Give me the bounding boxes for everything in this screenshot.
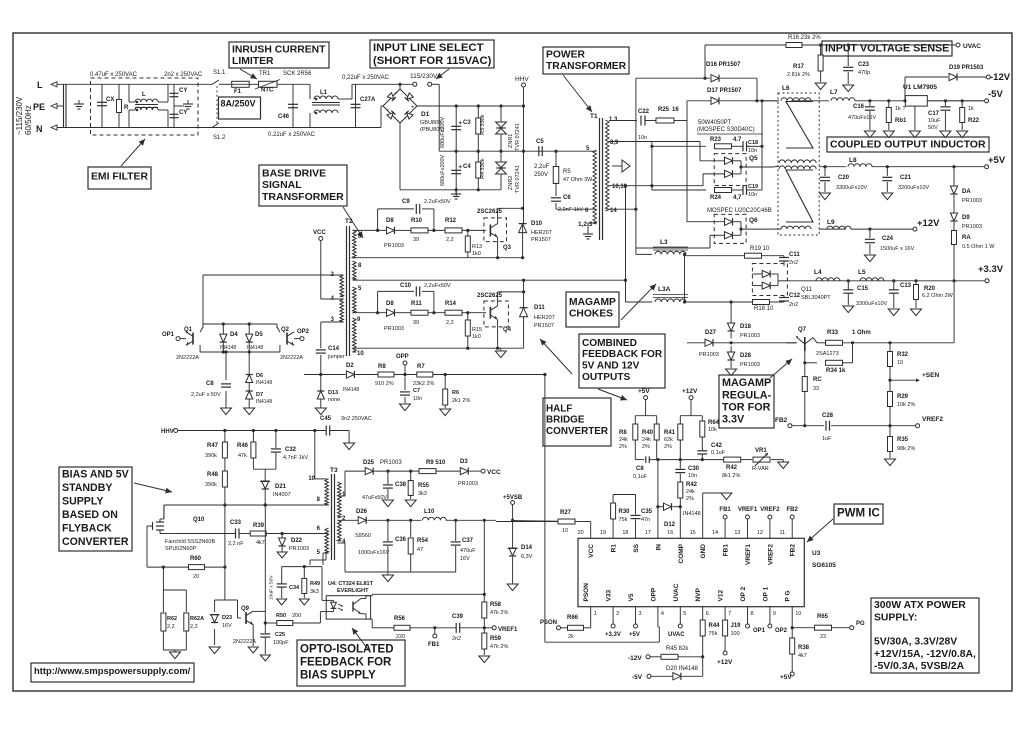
wire C3 top rail [417, 105, 524, 107]
svg-text:C38: C38 [395, 482, 407, 488]
svg-text:10n: 10n [748, 148, 757, 154]
wire Q3 emitter down [497, 237, 499, 258]
wire R23 left [652, 145, 706, 147]
svg-text:220: 220 [396, 634, 405, 640]
wire input cap line1 [63, 84, 65, 128]
junction sense D16 [703, 77, 706, 80]
svg-text:CX: CX [106, 97, 114, 103]
svg-text:3300uFx10V: 3300uFx10V [856, 301, 888, 307]
diode D27 [705, 339, 713, 346]
svg-text:C8: C8 [206, 381, 214, 387]
wire select right [432, 83, 440, 85]
wire Q10 gate row [175, 533, 236, 535]
svg-text:R22: R22 [968, 118, 980, 124]
transistor Q1 2N2222A [186, 332, 193, 346]
svg-text:R24: R24 [710, 195, 722, 201]
IC pin 16 COMP [679, 528, 681, 538]
svg-text:-5V: -5V [632, 674, 643, 681]
svg-text:0,22uF x 250VAC: 0,22uF x 250VAC [342, 75, 390, 81]
svg-text:R20: R20 [924, 286, 936, 292]
resistor R13 [465, 236, 470, 252]
svg-text:GND: GND [700, 544, 707, 559]
svg-text:TRANSFORMER: TRANSFORMER [546, 61, 627, 72]
svg-text:N: N [36, 124, 43, 134]
capacitor C23 [847, 45, 849, 66]
resistor R27 [558, 519, 575, 524]
svg-text:R62: R62 [167, 616, 177, 622]
svg-text:T2: T2 [345, 218, 353, 225]
wire VCC stem [590, 522, 592, 529]
resistor R59 branch [483, 628, 485, 633]
svg-text:IN4148: IN4148 [256, 399, 272, 405]
svg-text:98k 2%: 98k 2% [897, 446, 915, 452]
wire +12V rail [851, 228, 913, 230]
svg-text:FB1: FB1 [723, 544, 730, 557]
svg-text:2: 2 [616, 611, 619, 617]
optocoupler U4 body [326, 596, 370, 619]
svg-text:R60: R60 [190, 556, 202, 562]
winding zigzag lower [786, 170, 813, 222]
svg-text:D10: D10 [531, 221, 543, 227]
wire Q9 emitter gnd [252, 625, 254, 646]
resistor R39 [250, 531, 266, 536]
wire vertical 652 [651, 142, 653, 191]
svg-text:6,3V: 6,3V [521, 554, 533, 560]
IC pin 2 V33 [612, 607, 614, 618]
resistor R22 branch [961, 101, 963, 107]
wire +12V fb stem [690, 400, 692, 416]
svg-text:R47: R47 [207, 443, 219, 449]
IC pin 6 NVP [702, 607, 704, 618]
capacitor C19 [732, 189, 744, 191]
terminal -5V pwm [647, 674, 651, 678]
svg-text:1000uFx16V: 1000uFx16V [358, 550, 390, 556]
diode D22 branch [281, 534, 283, 539]
svg-text:75k: 75k [709, 631, 718, 637]
wire D4 D5 legs [222, 324, 224, 334]
resistor R25 [656, 118, 674, 123]
svg-text:250V: 250V [534, 172, 548, 178]
wire VCC to T2 pin4 [320, 241, 322, 300]
svg-text:BIAS AND 5V: BIAS AND 5V [62, 469, 129, 481]
wire sense drop [704, 45, 706, 78]
label input line select [370, 40, 494, 68]
resistor R60 [189, 565, 205, 570]
capacitor C30 branch [679, 460, 681, 469]
svg-text:OP 2: OP 2 [740, 586, 747, 601]
wire T2 pin6 row [353, 229, 387, 231]
resistor R15 [465, 320, 470, 336]
capacitor C38 branch [387, 471, 389, 484]
svg-text:R56: R56 [394, 616, 406, 622]
wire Q9 base [238, 617, 242, 619]
junction row2 HHV [521, 256, 524, 259]
ground C25 [260, 655, 270, 661]
junction mid2 [477, 150, 480, 153]
svg-text:50W4050PT: 50W4050PT [698, 120, 732, 126]
svg-text:10n: 10n [638, 135, 647, 141]
label emi filter [88, 167, 151, 189]
junction VREF1 row [483, 626, 486, 629]
wire Q10 source down [146, 536, 148, 567]
capacitor C4 [451, 169, 461, 171]
svg-text:FB2: FB2 [787, 507, 799, 513]
wire OPP row left [304, 374, 346, 376]
svg-text:10: 10 [308, 476, 315, 482]
wire VREF1 row [386, 627, 394, 629]
svg-text:T3: T3 [330, 467, 338, 474]
resistor R42b branch [679, 479, 681, 482]
svg-text:2n2: 2n2 [452, 636, 461, 642]
svg-text:10k 2%: 10k 2% [897, 402, 915, 408]
junction R46 top [252, 429, 255, 432]
wire -12V rail left [905, 76, 948, 78]
svg-text:SUPPLY:: SUPPLY: [874, 612, 917, 623]
svg-text:PR1003: PR1003 [740, 362, 760, 368]
svg-text:2n2: 2n2 [789, 302, 798, 308]
capacitor C15 [847, 281, 849, 290]
svg-text:R41: R41 [664, 430, 676, 436]
IC pin 18 SS [635, 528, 637, 538]
junction D16 D17 [755, 99, 758, 102]
arrow magamp regulator [770, 359, 792, 378]
diode Q5b [725, 170, 733, 177]
svg-text:0,1uF: 0,1uF [711, 450, 726, 456]
svg-text:R64: R64 [708, 420, 720, 426]
IC pin 4 OPP [657, 607, 659, 618]
svg-text:-5V: -5V [988, 89, 1003, 100]
wire HHV down [523, 87, 525, 106]
junction C37 [454, 519, 457, 522]
wire PG pin10 [791, 618, 793, 628]
terminal -5V [985, 99, 989, 103]
wire OPP pin4 [657, 618, 659, 627]
svg-text:IN: IN [655, 544, 662, 551]
ground C7 [400, 404, 411, 411]
svg-text:300W ATX POWER: 300W ATX POWER [874, 600, 966, 611]
wire R12 to Q3 [462, 229, 486, 231]
wire Q7 emitter row [813, 338, 817, 343]
wire input cap line2 [65, 84, 67, 128]
resistor R38 branch [791, 628, 793, 638]
svg-text:Q9: Q9 [241, 606, 250, 612]
capacitor C9 fb [645, 456, 647, 462]
svg-text:4,7nF 1kV: 4,7nF 1kV [283, 455, 308, 461]
wire R11 to R14 [428, 312, 445, 314]
wire D17 rail left [687, 100, 711, 102]
junction C17 [944, 99, 947, 102]
svg-text:3n2 250VAC: 3n2 250VAC [341, 416, 372, 422]
wire PSON to R66 [561, 627, 568, 629]
junction D5 bottom [248, 350, 251, 353]
wire T2 pin3 down [321, 321, 344, 323]
terminal +12V fb [689, 396, 693, 400]
svg-text:10uF x 50V: 10uF x 50V [269, 575, 275, 600]
svg-text:2%: 2% [686, 496, 694, 502]
svg-text:D7: D7 [256, 392, 263, 398]
svg-text:8,9: 8,9 [610, 140, 619, 146]
diode D2 [346, 371, 354, 378]
wire D11 vertical [523, 280, 525, 307]
wire to terminal [352, 83, 414, 85]
wire pin8 to Q10 drain [163, 505, 165, 519]
svg-text:R12: R12 [445, 218, 457, 224]
terminal FB2 top [791, 519, 793, 528]
terminal +5V fb [644, 396, 648, 400]
junction midpoint D11 [522, 279, 525, 282]
svg-text:2SA1273: 2SA1273 [816, 351, 839, 357]
svg-text:R19 10: R19 10 [750, 246, 770, 252]
diode D26 [358, 517, 366, 524]
svg-text:L1: L1 [320, 90, 328, 96]
label coupled output inductor [827, 137, 989, 152]
wire R19 to C11 [762, 255, 785, 257]
svg-text:C45: C45 [320, 416, 332, 422]
svg-text:L9: L9 [827, 219, 835, 226]
svg-text:PG: PG [856, 621, 865, 627]
svg-text:R38: R38 [798, 645, 810, 651]
label half bridge converter [543, 398, 611, 446]
wire D3 to VCC [469, 470, 481, 472]
junction OPP [403, 373, 406, 376]
svg-text:C14: C14 [328, 346, 340, 352]
terminal +5V [985, 165, 989, 169]
ground Rb1 [883, 131, 894, 138]
capacitor C45 [325, 426, 327, 436]
svg-text:24k: 24k [642, 437, 651, 443]
transformer T3 core [331, 474, 333, 560]
junction R6 [444, 373, 447, 376]
junction R20 [914, 279, 917, 282]
ground C16 [864, 131, 875, 138]
svg-text:PR1003: PR1003 [458, 481, 478, 487]
resistor R55 branch [410, 471, 412, 480]
terminal VCC T2 [319, 237, 323, 241]
junction SEN [888, 379, 891, 382]
svg-text:0,1uF: 0,1uF [633, 474, 648, 480]
svg-text:VCC: VCC [588, 544, 595, 558]
diode D5 [246, 334, 253, 342]
svg-text:47k 2%: 47k 2% [490, 644, 508, 650]
svg-text:R45 82k: R45 82k [666, 646, 689, 652]
wire C8 branch [225, 352, 227, 380]
wire L1 out top [338, 98, 352, 100]
svg-text:1k0: 1k0 [472, 334, 481, 340]
junction C14 D13 [319, 373, 322, 376]
svg-text:L5: L5 [858, 269, 866, 276]
svg-text:S1.2: S1.2 [213, 135, 226, 141]
inductor L common-mode choke [135, 99, 158, 102]
wire OPP vertical long [544, 375, 546, 643]
svg-text:D8: D8 [386, 218, 394, 224]
svg-text:16: 16 [667, 530, 673, 536]
resistor R6 [443, 389, 448, 405]
svg-text:PE: PE [33, 102, 45, 112]
svg-text:MAGAMP: MAGAMP [722, 377, 771, 389]
wire HHV to T3 pin10 [314, 431, 316, 479]
ground R49 [299, 599, 309, 605]
svg-text:47k: 47k [238, 453, 247, 459]
wire R6 branch [444, 375, 446, 390]
transformer T1 primary winding [593, 150, 597, 224]
svg-text:1 Ohm: 1 Ohm [852, 330, 871, 336]
svg-text:470p: 470p [858, 70, 870, 76]
arrow half bridge [540, 339, 572, 374]
junction D4 bottom [222, 350, 225, 353]
svg-text:+12V: +12V [917, 218, 940, 229]
svg-text:10: 10 [562, 528, 568, 534]
wire N to bridge [310, 127, 381, 129]
wire C27A [355, 84, 357, 127]
diode D11 [520, 308, 528, 317]
junction R17 [819, 43, 822, 46]
svg-text:F1: F1 [234, 89, 242, 95]
ground C38 [382, 500, 393, 507]
diode D17 [711, 97, 719, 104]
wire D12 row [657, 460, 659, 507]
svg-text:-12V: -12V [990, 72, 1011, 83]
svg-text:2,2uF x 50V: 2,2uF x 50V [191, 392, 221, 398]
wire D8b to R11 [396, 312, 412, 314]
svg-text:62k: 62k [664, 437, 673, 443]
label 8A/250V fuse rating box [219, 97, 261, 119]
junction R48 cross [223, 503, 226, 506]
wire R13 legs [467, 230, 469, 236]
svg-text:2%: 2% [664, 444, 672, 450]
svg-text:3: 3 [639, 611, 642, 617]
junction R34 right [851, 341, 854, 344]
svg-text:10uF: 10uF [928, 118, 941, 124]
svg-text:VREF1: VREF1 [738, 507, 758, 513]
wire T3 pin2 to D26 [338, 519, 359, 521]
ground R20 [911, 309, 922, 316]
svg-text:R32: R32 [897, 352, 909, 358]
svg-text:R27: R27 [560, 510, 572, 516]
svg-text:-12V: -12V [628, 655, 642, 662]
svg-text:HALF: HALF [546, 403, 572, 414]
svg-text:17: 17 [645, 530, 651, 536]
svg-text:2SC2625: 2SC2625 [477, 293, 503, 299]
transistor Q3 2SC2625 [490, 224, 497, 238]
junction R23 [650, 145, 653, 148]
resistor R8 910 [378, 372, 394, 377]
wire D2 to R8 [355, 374, 378, 376]
varistor ZNR2 [496, 162, 507, 174]
svg-text:11: 11 [779, 530, 785, 536]
svg-text:PR1003: PR1003 [384, 326, 404, 332]
svg-text:TOR FOR: TOR FOR [722, 402, 771, 414]
wire F1 to NTC [249, 83, 258, 85]
junction R64 bot [701, 458, 704, 461]
wire pin13 out [609, 120, 637, 122]
resistor R66 [568, 625, 584, 630]
junction R13 top [466, 229, 469, 232]
terminal -12V pwm [646, 655, 650, 659]
ground C20 [820, 193, 831, 200]
wire C45 gnd [348, 431, 350, 444]
diode D8 [387, 227, 395, 234]
wire R3 branch [477, 106, 479, 151]
svg-text:R55: R55 [418, 483, 430, 489]
svg-text:2,2uF: 2,2uF [534, 164, 550, 170]
junction C15 [847, 279, 850, 282]
svg-text:8: 8 [751, 611, 754, 617]
wire R8 to R7 [394, 374, 417, 376]
svg-text:R7: R7 [417, 364, 425, 370]
ground C23 [843, 85, 854, 92]
wire standby return rail [345, 571, 456, 573]
junction bridge top [398, 83, 401, 86]
svg-text:390k: 390k [205, 482, 217, 488]
svg-text:100pF: 100pF [273, 640, 289, 646]
svg-text:1,2,3: 1,2,3 [578, 221, 593, 228]
svg-text:L8: L8 [849, 157, 857, 164]
EMI filter dashed box [91, 78, 199, 135]
svg-text:100: 100 [731, 631, 740, 637]
svg-text:D11: D11 [534, 305, 545, 311]
L1 dot1 [315, 98, 318, 101]
svg-text:CONVERTER: CONVERTER [546, 426, 608, 437]
junction C16 [868, 99, 871, 102]
wire IN pin vertical [657, 507, 659, 528]
resistor R16 [786, 43, 802, 48]
svg-text:MAGAMP: MAGAMP [569, 297, 616, 308]
svg-text:RC: RC [813, 377, 822, 383]
svg-text:CHOKES: CHOKES [569, 309, 613, 320]
transformer T1 secondary winding [606, 120, 610, 211]
wire CX [101, 84, 103, 127]
junction R62 top [162, 566, 165, 569]
IC pin 10 P G [791, 607, 793, 618]
terminal VREF2 top [769, 519, 771, 528]
transformer T3 right winding [338, 482, 342, 518]
svg-text:2,2: 2,2 [190, 624, 198, 630]
svg-text:P G: P G [785, 590, 792, 601]
svg-text:Q7: Q7 [798, 327, 807, 333]
dashed outline Q11 [752, 264, 787, 296]
junction C23 [847, 43, 850, 46]
wire D25 to R9 [374, 470, 419, 472]
wire C32 R46 join [253, 468, 276, 470]
svg-text:MOSPEC U20C20C46B: MOSPEC U20C20C46B [707, 208, 772, 214]
svg-text:2k: 2k [568, 634, 574, 640]
svg-text:PSON: PSON [583, 583, 590, 602]
svg-text:D8: D8 [386, 301, 394, 307]
svg-text:10n: 10n [688, 473, 697, 479]
wire Q2 collector [277, 327, 280, 332]
svg-text:PR1003: PR1003 [289, 546, 309, 552]
svg-text:5V/30A, 3.3V/28V: 5V/30A, 3.3V/28V [874, 637, 957, 648]
junction R40 bot [656, 458, 659, 461]
terminal +5V pin3 [635, 618, 637, 624]
svg-text:D17 PR1507: D17 PR1507 [707, 88, 742, 94]
svg-text:10k: 10k [708, 427, 717, 433]
svg-text:10n: 10n [748, 192, 757, 198]
terminal +3.3V pin2 [612, 618, 614, 624]
line under mospec label [697, 133, 763, 135]
capacitor C6 [551, 197, 561, 199]
resistor R48 [222, 471, 227, 487]
svg-text:EMI FILTER: EMI FILTER [91, 172, 148, 183]
wire RA to 3.3rail [953, 262, 955, 281]
arrow pwm ic [807, 519, 833, 542]
junction R35 top [888, 424, 891, 427]
svg-text:+5V: +5V [988, 155, 1006, 166]
resistor R47 [224, 431, 226, 443]
wire D16 rail left [636, 77, 710, 79]
resistor R7 [417, 372, 433, 377]
regulator U1 LM7905 [905, 96, 927, 107]
